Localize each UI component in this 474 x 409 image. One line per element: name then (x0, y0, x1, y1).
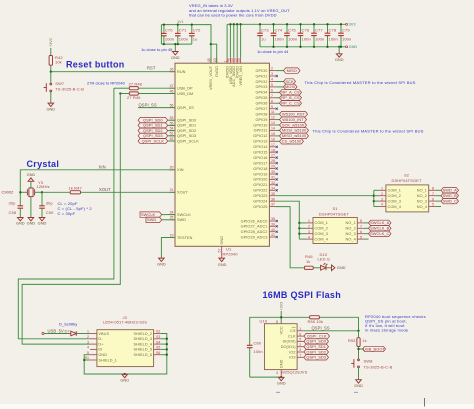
net label USB_BOOT (357, 346, 385, 351)
svg-text:5: 5 (299, 338, 301, 342)
pin DVDD 23 top (213, 58, 219, 77)
svg-text:S3: S3 (156, 335, 160, 339)
svg-text:SHIELD_2: SHIELD_2 (134, 332, 153, 336)
pin J3 SHIELD_1 S1 (85, 356, 117, 362)
resistor R49 27 (119, 92, 175, 100)
capacitor C73 (259, 24, 261, 47)
svg-text:GPIO10: GPIO10 (253, 123, 267, 127)
svg-text:QSPI_SD0: QSPI_SD0 (177, 119, 196, 123)
svg-text:+3V3: +3V3 (280, 302, 284, 311)
pin IOVDD 1 top (223, 58, 229, 79)
note crystal cap calc (58, 201, 93, 216)
svg-text:S2: S2 (156, 330, 160, 334)
net label QSPI_SD2 flash (304, 349, 329, 354)
wire QSPI_SS net (304, 326, 360, 332)
pin S1 COM_1 (299, 219, 328, 225)
no-connect GPIO16 (276, 157, 278, 159)
svg-text:1u: 1u (261, 36, 266, 41)
no-connect GPIO27_ADC1 (276, 225, 278, 227)
svg-text:16: 16 (271, 137, 275, 141)
pin GPIO25 37 (253, 203, 275, 209)
svg-text:USB_DP: USB_DP (177, 87, 193, 91)
svg-text:C71: C71 (179, 28, 187, 33)
no-connect GPIO19 (276, 173, 278, 175)
wire GPIO2 to label (275, 81, 283, 83)
svg-text:GPIO15: GPIO15 (253, 151, 267, 155)
wire USB D+ to J3 (18, 88, 114, 339)
svg-text:GPIO3: GPIO3 (255, 85, 267, 89)
svg-text:1: 1 (87, 330, 89, 334)
svg-text:1k: 1k (306, 259, 310, 264)
net label QSPI_SD1 flash (304, 344, 329, 349)
pin S1 COM_4 (299, 235, 328, 241)
net label MISO_w5100 (280, 133, 309, 138)
net label SWD_B (435, 193, 458, 198)
net label SWCLK (140, 212, 175, 217)
svg-text:46: 46 (170, 89, 174, 93)
svg-text:C73: C73 (261, 27, 269, 32)
svg-text:W5100_INT: W5100_INT (282, 117, 304, 122)
svg-text:C9002: C9002 (2, 190, 14, 195)
wire +3V3 top rail (227, 24, 345, 57)
svg-text:QSPI_CLK: QSPI_CLK (307, 333, 327, 338)
wire GPIO5 to label (275, 97, 279, 99)
wire flash bottom to ground (250, 376, 283, 378)
svg-text:52: 52 (170, 137, 174, 141)
capacitor C71 (177, 25, 179, 44)
svg-text:C72: C72 (193, 28, 201, 33)
svg-text:COM_3: COM_3 (315, 232, 328, 236)
svg-text:GND: GND (38, 221, 47, 226)
title Reset button (66, 60, 125, 70)
pin IOVDD 33 top (233, 58, 239, 79)
svg-text:6: 6 (271, 89, 273, 93)
svg-text:7: 7 (299, 354, 301, 358)
svg-text:2: 2 (299, 343, 301, 347)
pin VREG_VOUT 45 top (207, 58, 213, 90)
ground below C59 (38, 218, 47, 226)
svg-text:+3V3: +3V3 (49, 38, 53, 47)
svg-text:8: 8 (271, 99, 273, 103)
ground TESTEN (157, 258, 166, 266)
svg-text:MOSI: MOSI (285, 84, 295, 89)
pin GPIO23 35 (253, 192, 275, 198)
svg-text:GPIO8: GPIO8 (255, 112, 267, 116)
svg-text:27 R48: 27 R48 (129, 81, 143, 86)
svg-text:3: 3 (381, 197, 383, 201)
note 1u close to pin 44 (257, 49, 289, 54)
no-connect GPIO28_ADC2 (276, 231, 278, 233)
no-connect GPIO18 (276, 167, 278, 169)
hier label 3V3 rail end (346, 22, 356, 27)
pin S2 NO_3 (417, 197, 436, 203)
ground right of D10 (332, 265, 346, 271)
svg-text:SW7: SW7 (55, 81, 65, 86)
svg-text:S6: S6 (156, 351, 160, 355)
capacitor C74 (273, 24, 275, 47)
svg-text:NO_1: NO_1 (417, 189, 427, 193)
wire junction to SW7 (50, 72, 52, 83)
svg-text:D+: D+ (98, 342, 104, 346)
svg-text:100n: 100n (275, 36, 284, 41)
LED D10 (318, 252, 332, 270)
junction dots left cap rail (163, 23, 193, 45)
ground above crystal Y3 (27, 172, 36, 188)
wire GPIO8 to label (275, 113, 279, 115)
svg-text:C79: C79 (342, 27, 350, 32)
wire GPIO11 to label (275, 129, 279, 131)
svg-text:DVDD: DVDD (215, 66, 219, 77)
switch SW7 TS-3025-B-C-B (44, 81, 85, 103)
power +3V3 above flash (280, 302, 284, 324)
net label SWCLK_B (364, 226, 391, 231)
svg-text:19: 19 (170, 233, 174, 237)
svg-text:3: 3 (299, 348, 301, 352)
svg-text:VCC: VCC (279, 326, 283, 334)
note wiznet SPI master 2 (313, 128, 424, 133)
svg-text:3: 3 (87, 340, 89, 344)
svg-text:DO(IO1): DO(IO1) (281, 345, 297, 349)
svg-text:20: 20 (170, 166, 174, 170)
svg-text:GPIO16: GPIO16 (253, 156, 267, 160)
svg-text:GPIO24: GPIO24 (253, 200, 267, 204)
svg-text:8: 8 (276, 320, 278, 324)
svg-text:8: 8 (360, 219, 362, 223)
svg-text:GPIO22: GPIO22 (253, 189, 267, 193)
svg-text:D_Schttky: D_Schttky (59, 322, 77, 327)
svg-text:24: 24 (170, 211, 174, 215)
svg-text:GPIO4: GPIO4 (255, 91, 267, 95)
pin U10 DO(IO1) 2 (281, 343, 304, 349)
no-connect GPIO22 (276, 189, 278, 191)
resistor R47 1k (42, 185, 175, 194)
svg-text:C = 30pF: C = 30pF (58, 211, 76, 216)
svg-text:NO_2: NO_2 (346, 227, 356, 231)
pin SWD 25 (170, 216, 187, 222)
net label SWD_A (435, 188, 458, 193)
pin ADC_AVDD 43 top (230, 58, 236, 87)
svg-text:26: 26 (170, 68, 174, 72)
svg-text:1u close to pin 44: 1u close to pin 44 (257, 49, 289, 54)
pin VREG_VIN 44 top (237, 58, 243, 86)
svg-text:R53: R53 (348, 338, 356, 343)
svg-text:SWD_A: SWD_A (443, 188, 458, 193)
svg-text:18: 18 (271, 148, 275, 152)
op-amp U1 RP2040 chip body (175, 63, 269, 246)
wire GPIO25 to R46 (275, 207, 304, 268)
svg-text:GPIO17: GPIO17 (253, 161, 267, 165)
svg-text:2: 2 (381, 192, 383, 196)
svg-text:CS: CS (290, 329, 296, 333)
svg-text:GND: GND (171, 55, 180, 60)
wire TESTEN to ground (161, 238, 175, 259)
svg-text:30p: 30p (46, 201, 54, 206)
svg-text:QSPI_SS: QSPI_SS (177, 106, 194, 110)
svg-text:GPIO6: GPIO6 (255, 102, 267, 106)
pin J3 SHIELD_4 S4 (134, 340, 161, 346)
svg-text:SHIELD_6: SHIELD_6 (134, 353, 153, 357)
svg-text:100n: 100n (342, 36, 351, 41)
wire GPIO23 to S2 (275, 190, 373, 206)
svg-text:GND: GND (218, 262, 227, 267)
svg-text:XOUT: XOUT (99, 187, 111, 192)
pin XIN 20 (170, 166, 184, 172)
svg-text:ID: ID (98, 348, 102, 352)
pin GPIO10 13 (253, 121, 275, 127)
svg-text:SHIELD_3: SHIELD_3 (134, 337, 153, 341)
svg-text:C76: C76 (302, 27, 310, 32)
svg-text:1: 1 (381, 187, 383, 191)
svg-text:CS_w5100: CS_w5100 (282, 139, 302, 144)
pin GPIO5 7 (255, 94, 275, 100)
pin GPIO22 34 (253, 186, 275, 192)
pin GPIO26_ADC0 38 (241, 217, 276, 223)
svg-text:30: 30 (271, 170, 275, 174)
wire GPIO12 to label (275, 135, 279, 137)
svg-text:TS-3025-B-C-B: TS-3025-B-C-B (55, 86, 84, 91)
svg-text:MISO_w5100: MISO_w5100 (282, 133, 307, 138)
pin QSPI_SD2 54 (170, 127, 197, 133)
net label SCK_w5100 (280, 122, 307, 127)
svg-text:40: 40 (271, 228, 275, 232)
svg-text:U254-0517-4BH23-S2S: U254-0517-4BH23-S2S (103, 320, 147, 325)
svg-text:Crystal: Crystal (27, 159, 60, 169)
svg-text:SWCLK_C: SWCLK_C (370, 231, 389, 236)
svg-text:45: 45 (207, 58, 211, 62)
pin GPIO15 18 (253, 148, 275, 154)
pin GPIO11 14 (254, 127, 276, 133)
svg-text:QSPI_SD3: QSPI_SD3 (177, 134, 196, 138)
pin S1 NO_1 (346, 219, 364, 225)
pin GPIO7 9 (255, 105, 275, 111)
svg-text:W25Q128JVS: W25Q128JVS (281, 369, 308, 374)
svg-text:5: 5 (432, 203, 434, 207)
wire J3 shield bus (125, 334, 167, 375)
svg-text:IO2: IO2 (289, 350, 295, 354)
pin S1 NO_3 (346, 230, 364, 236)
svg-text:4: 4 (381, 203, 383, 207)
wire GPIO24 to S1 (275, 201, 299, 239)
svg-text:7: 7 (360, 225, 362, 229)
svg-text:QSPI_SCLK: QSPI_SCLK (177, 139, 199, 143)
svg-text:GPIO28_ADC2: GPIO28_ADC2 (241, 230, 268, 234)
pin S2 NO_1 (417, 187, 436, 193)
svg-text:27: 27 (271, 154, 275, 158)
svg-text:VREG_VOUT: VREG_VOUT (209, 65, 213, 90)
pin SWCLK 24 (170, 211, 192, 217)
pin J3 ID 4 (87, 346, 102, 352)
capacitor C78 (327, 24, 329, 47)
svg-text:6: 6 (360, 230, 362, 234)
no-connect GPIO7 (276, 108, 278, 110)
svg-text:1u: 1u (193, 37, 198, 42)
svg-text:35: 35 (271, 192, 275, 196)
pin U10 CLK 6 (288, 332, 304, 338)
junction dots cap bank (259, 23, 342, 48)
svg-text:13: 13 (271, 121, 275, 125)
diode D7 schottky (65, 328, 91, 335)
svg-text:GND: GND (16, 221, 25, 226)
svg-text:GPIO9: GPIO9 (255, 118, 267, 122)
wire flash top rail (250, 316, 359, 345)
pin GPIO29_ADC3 41 (241, 233, 276, 239)
svg-text:57: 57 (218, 249, 222, 253)
pin J3 SHIELD_6 S6 (134, 351, 161, 357)
no-connect GPIO29_ADC3 (276, 236, 278, 238)
svg-text:QSPI_SD1: QSPI_SD1 (306, 344, 326, 349)
pin S1 NO_4 (346, 235, 364, 241)
pin GPIO1 3 (255, 72, 275, 78)
svg-text:100n: 100n (315, 36, 324, 41)
svg-text:12MHz: 12MHz (37, 184, 50, 189)
svg-text:17: 17 (271, 143, 275, 147)
svg-text:GPIO18: GPIO18 (253, 167, 267, 171)
wire GPIO6 to label (275, 102, 279, 104)
svg-text:36: 36 (271, 197, 275, 201)
svg-text:MOSI_w5100: MOSI_w5100 (282, 128, 307, 133)
svg-text:DI(IO0): DI(IO0) (283, 340, 297, 344)
svg-text:C77: C77 (315, 27, 323, 32)
svg-text:1V1: 1V1 (177, 20, 184, 24)
svg-text:COM_1: COM_1 (388, 189, 401, 193)
net label QSPI_SS left (138, 102, 175, 107)
svg-text:C59: C59 (46, 210, 54, 215)
svg-text:100n: 100n (165, 37, 174, 42)
svg-text:IO3: IO3 (289, 356, 295, 360)
capacitor C75 (286, 24, 288, 47)
svg-text:COM_4: COM_4 (315, 237, 328, 241)
svg-text:COM_1: COM_1 (315, 221, 328, 225)
svg-text:GND: GND (220, 236, 224, 245)
svg-text:C78: C78 (329, 27, 337, 32)
svg-text:USB_BOOT: USB_BOOT (363, 346, 385, 351)
svg-text:2: 2 (271, 67, 273, 71)
pin USB_DP 47 (170, 84, 194, 90)
capacitor C80 100n (247, 340, 263, 377)
pin J3 SHIELD_5 S5 (134, 346, 161, 352)
svg-text:32: 32 (271, 181, 275, 185)
svg-text:34: 34 (271, 186, 275, 190)
no-connect GPIO17 (276, 162, 278, 164)
pin USB_DM 46 (170, 89, 194, 95)
wire GPIO13 to label (275, 140, 279, 142)
svg-text:COM_2: COM_2 (388, 194, 401, 198)
svg-text:7: 7 (271, 94, 273, 98)
svg-text:SCK_w5100: SCK_w5100 (282, 122, 305, 127)
svg-text:55: 55 (170, 121, 174, 125)
net label QSPI_SD0 left (138, 117, 175, 122)
pin S2 NO_4 (417, 203, 436, 209)
pin GND 57 bottom (218, 236, 224, 258)
net label MOSI_w5100 (280, 128, 309, 133)
net label W5100_INT (280, 117, 307, 122)
wire 1V1 top rail (161, 25, 211, 64)
svg-text:SWCLK: SWCLK (177, 213, 191, 217)
pin QSPI_SD3 51 (170, 132, 197, 138)
net label MOSI (284, 84, 298, 89)
svg-text:RP_A_CS: RP_A_CS (281, 90, 300, 95)
svg-text:TESTEN: TESTEN (177, 236, 193, 240)
net label C9002 (2, 190, 14, 195)
pin U10 GND 4 (276, 359, 283, 377)
pin U10 DI(IO0) 5 (283, 338, 304, 344)
net label SWD (146, 217, 175, 222)
capacitor C72 (191, 25, 193, 44)
pin QSPI_SS 56 (170, 104, 195, 110)
svg-text:USB_5V: USB_5V (48, 328, 64, 333)
pin J3 D- 2 (87, 335, 103, 341)
ground below C58 (16, 218, 25, 226)
connector J3 U254-0517-4BH23-S2S body (97, 315, 154, 367)
svg-text:GND: GND (157, 261, 166, 266)
svg-text:S2: S2 (404, 172, 410, 177)
pin RUN 26 (170, 68, 186, 74)
note RP2040 boot sequence (365, 314, 426, 333)
svg-text:W5100_RST: W5100_RST (282, 111, 306, 116)
net label SCK (284, 79, 296, 84)
svg-text:SWCLK_B: SWCLK_B (370, 226, 389, 231)
capacitor C77 (313, 24, 315, 47)
U1 reference designator (223, 247, 239, 257)
svg-text:RUN: RUN (177, 70, 186, 74)
net flag USB_5V (42, 328, 71, 334)
pin GPIO13 16 (253, 137, 275, 143)
wire GPIO3 to label (275, 86, 283, 88)
net label QSPI_SD3 left (138, 133, 175, 138)
svg-text:SCK: SCK (285, 79, 294, 84)
svg-text:U10: U10 (260, 319, 268, 324)
svg-text:XIN: XIN (99, 165, 106, 170)
svg-text:GPIO23: GPIO23 (253, 194, 267, 198)
wire left cap bottom rail to GND (161, 25, 191, 52)
capacitor C58 30p (9, 191, 24, 217)
svg-text:GND: GND (27, 172, 36, 177)
pin S2 NO_2 (417, 192, 436, 198)
svg-text:COM_2: COM_2 (315, 227, 328, 231)
svg-text:1k: 1k (362, 338, 366, 343)
pin J3 GND 5 (87, 351, 107, 357)
svg-text:54: 54 (170, 127, 174, 131)
svg-text:31: 31 (271, 176, 275, 180)
svg-text:GPIO19: GPIO19 (253, 172, 267, 176)
svg-text:3: 3 (308, 230, 310, 234)
svg-text:GND: GND (46, 106, 55, 111)
wire DVDD bridge (211, 44, 217, 63)
pin GPIO28_ADC2 40 (241, 228, 276, 234)
wire +3V3 bottom rail (260, 46, 345, 48)
svg-text:XIN: XIN (177, 168, 184, 172)
svg-text:GPIO29_ADC3: GPIO29_ADC3 (241, 235, 268, 239)
svg-text:3: 3 (271, 72, 273, 76)
svg-text:QSPI_SD0: QSPI_SD0 (306, 339, 326, 344)
svg-text:GPIO12: GPIO12 (253, 134, 267, 138)
pin S1 COM_3 (299, 230, 328, 236)
svg-text:S1: S1 (333, 206, 339, 211)
net label QSPI_CLK flash (304, 333, 330, 338)
resistor R42 10k (49, 55, 63, 72)
ground cap bank (338, 47, 340, 54)
resistor R46 1k (304, 254, 320, 269)
svg-text:51: 51 (170, 132, 174, 136)
no-connect GPIO21 (276, 184, 278, 186)
net label RST (147, 66, 156, 71)
svg-text:DSHP04TSGET: DSHP04TSGET (319, 211, 349, 216)
svg-text:56: 56 (170, 104, 174, 108)
pin GPIO9 12 (255, 116, 275, 122)
net label QSPI_SD3 flash (304, 355, 329, 360)
pin GPIO14 17 (253, 143, 275, 149)
ground below J3 (124, 373, 126, 375)
